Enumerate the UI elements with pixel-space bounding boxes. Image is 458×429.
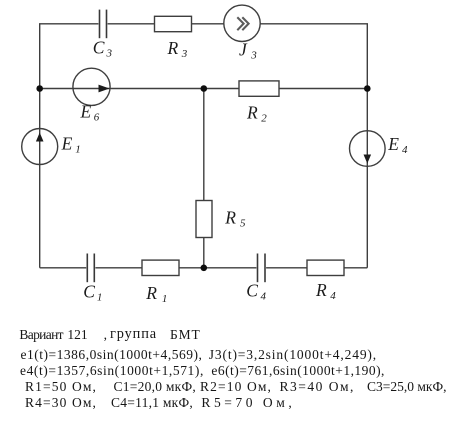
wire R4 to bottom-right corner [344,267,367,269]
wire C1 to R1 [95,267,142,269]
middle wire node to R5 [203,89,205,201]
wire R5 to bottom node [203,238,205,268]
svg-text:C3: C3 [93,38,113,60]
J3 double-chevron symbol [237,17,248,30]
wire R2 to right node [279,88,367,90]
voltage source E1 circle [22,129,58,165]
E6 arrowhead [99,85,110,93]
resistor R5 [196,201,212,238]
svg-text:C1: C1 [83,282,102,304]
svg-text:J3: J3 [239,39,257,61]
svg-text:E1: E1 [61,134,81,156]
voltage source E4 circle [350,131,386,167]
resistor R4 [307,260,344,275]
junction node right [364,85,371,92]
capacitor C4 [258,254,266,283]
bottom wire: left corner to C1 [40,267,86,269]
svg-text:C4: C4 [246,280,266,302]
left wire through E1 down to bottom-left corner [39,89,41,268]
E1 arrowhead (up) [36,133,44,142]
wire C3 to R3 [108,23,155,25]
resistor R2 [239,81,279,96]
wire J3 to top-right corner down to node [260,24,367,89]
junction node bottom [201,265,208,272]
junction node left [36,85,43,92]
svg-text:R2: R2 [246,102,267,124]
junction node middle [201,85,208,92]
wire R1 to bottom node [179,267,256,269]
svg-text:R4: R4 [315,280,336,302]
right wire through E4 down to bottom-right corner [366,89,368,268]
wire R3 to J3 [192,23,224,25]
wire top-left to C3 left plate [40,24,99,89]
capacitor C1 [87,254,94,283]
svg-text:E4: E4 [387,134,408,156]
problem statement text block [19,327,63,343]
resistor R3 [155,16,192,31]
wire C4 to R4 [266,267,307,269]
current source J3 circle [224,5,260,41]
resistor R1 [142,260,179,275]
svg-text:R1: R1 [145,283,167,305]
svg-text:R5: R5 [224,208,246,230]
svg-text:R3: R3 [167,38,188,60]
capacitor C3 [100,10,107,39]
voltage source E6 circle [73,68,110,105]
wire row2: left node through E6 to R2 [40,88,239,90]
E4 arrowhead (down) [364,155,372,164]
